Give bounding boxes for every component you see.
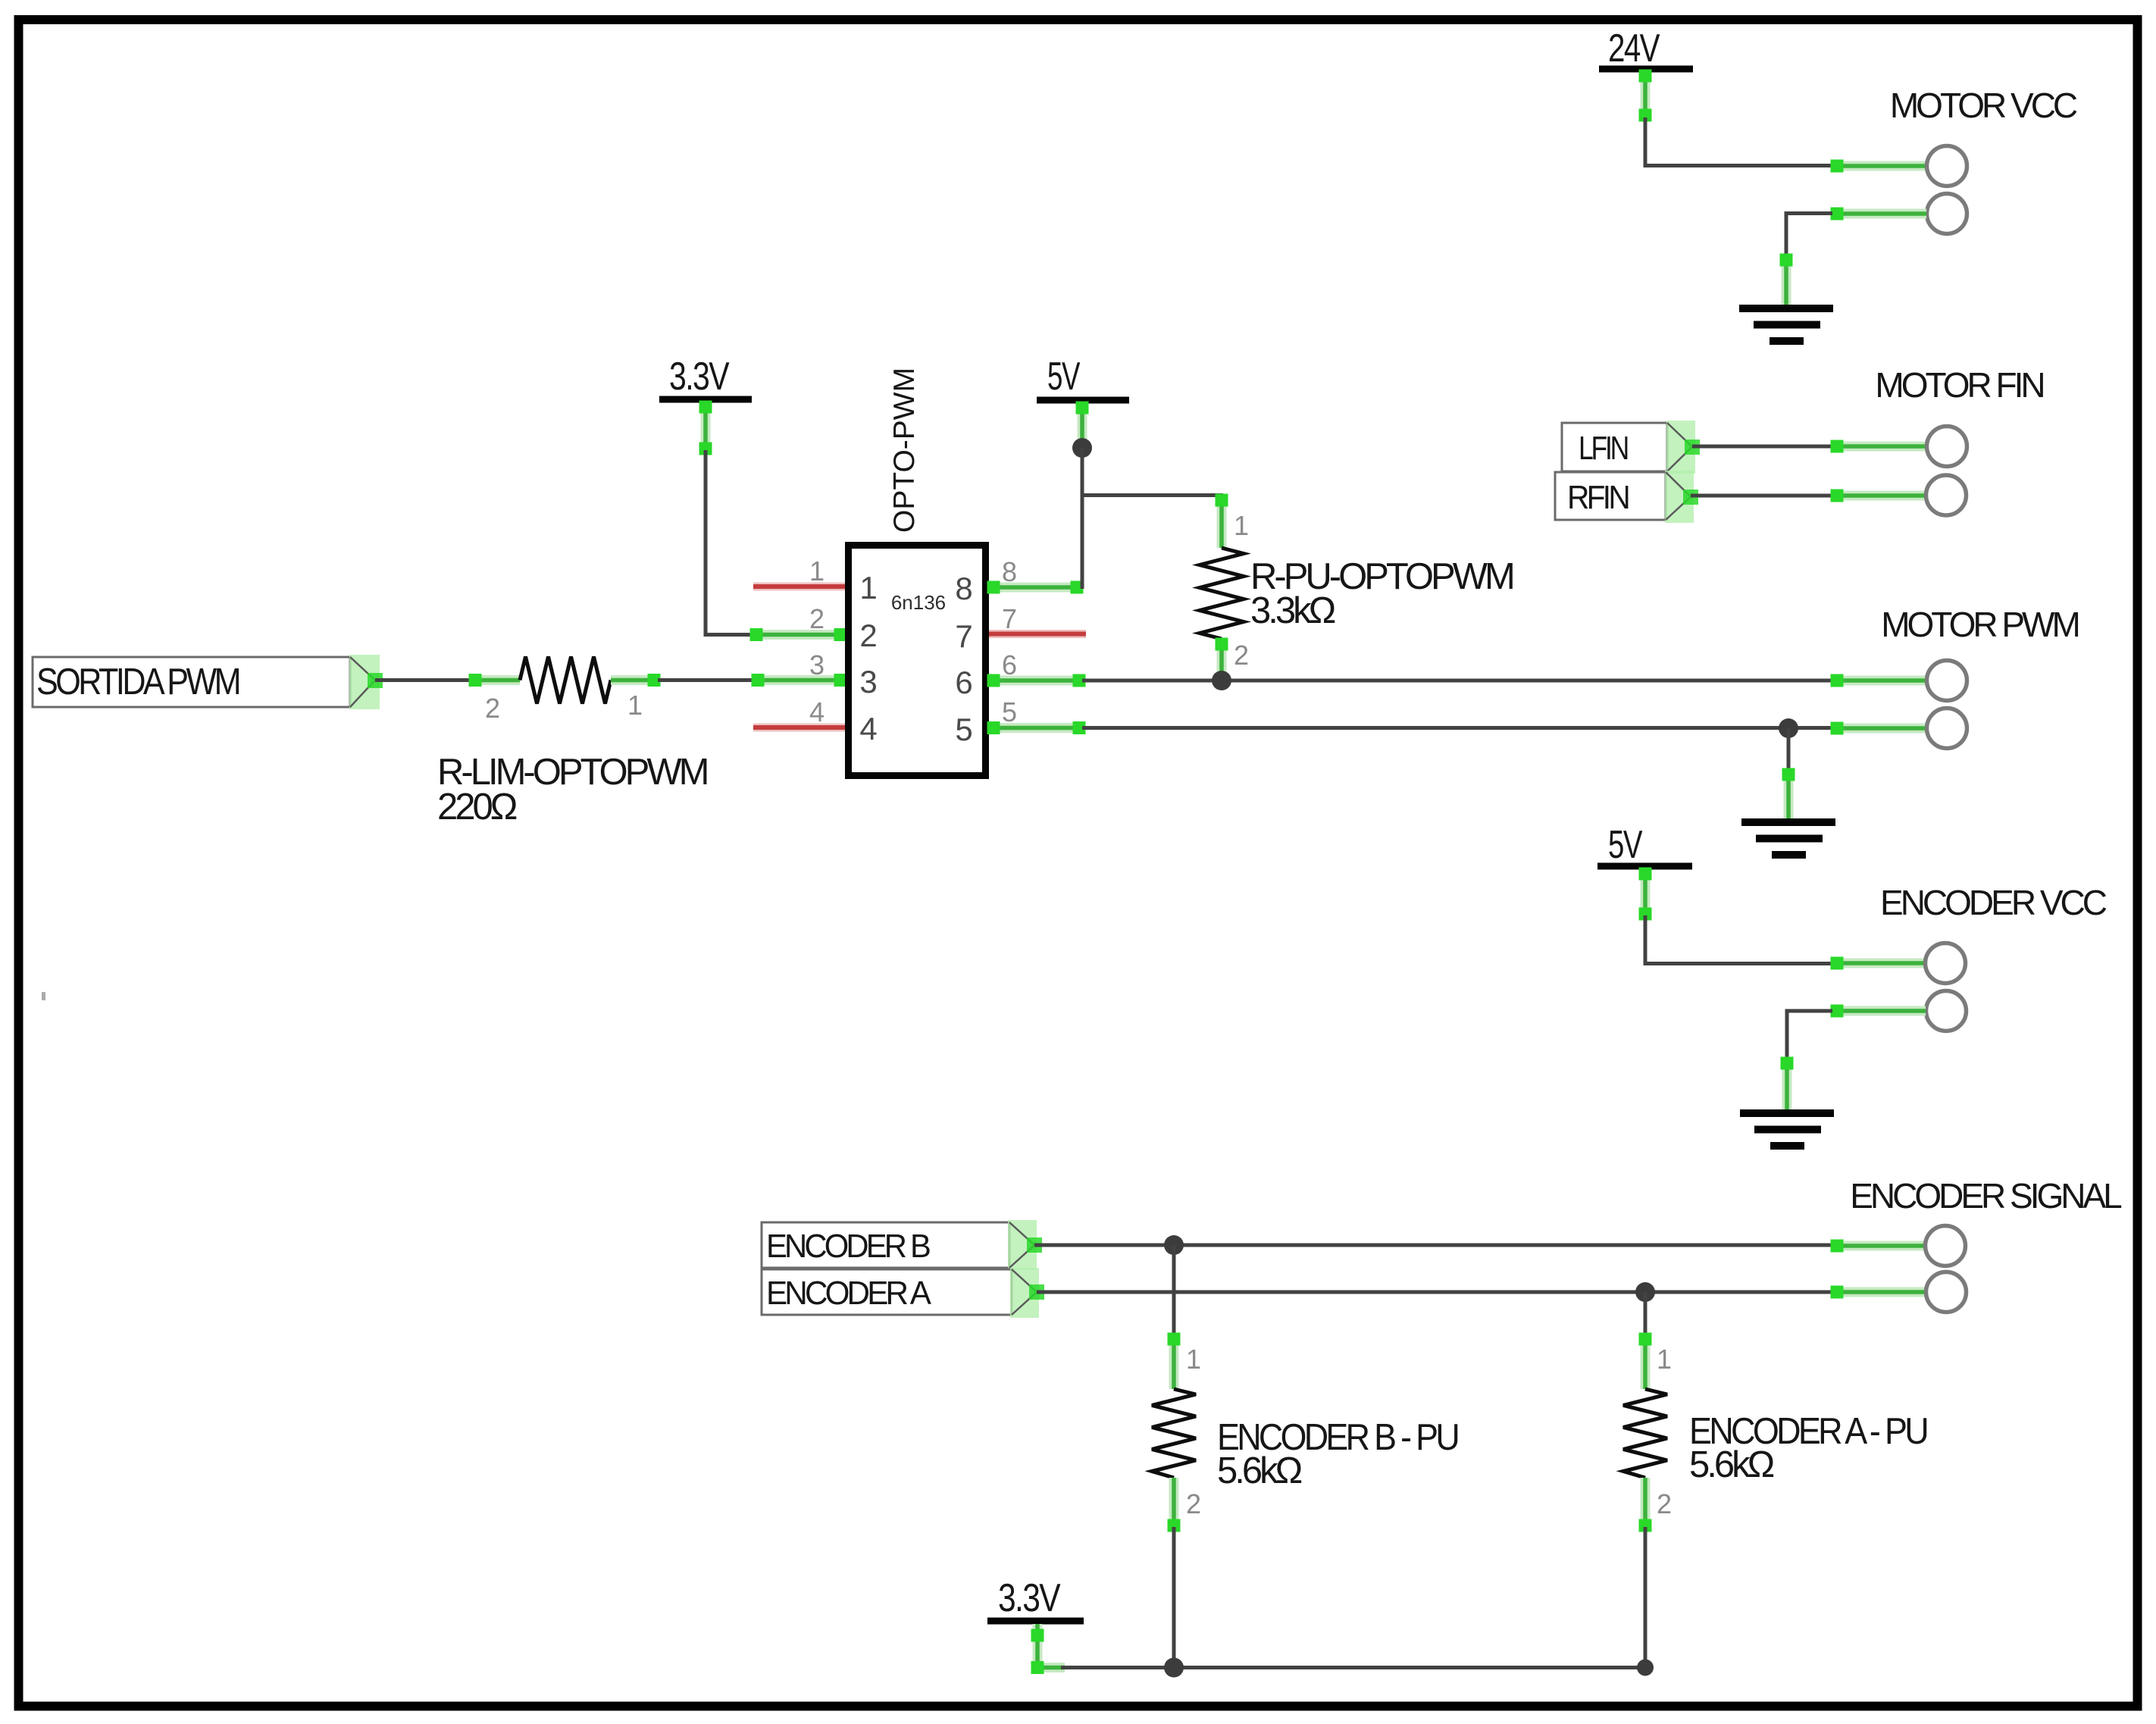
pin MOTOR PWM upper xyxy=(1927,661,1967,701)
wire 24V down green xyxy=(1639,70,1652,122)
wire green to pin xyxy=(1831,490,1926,502)
wire 3.3V elbow to pin2 xyxy=(706,450,753,635)
junction rail A xyxy=(1637,1660,1654,1676)
wire 3.3V rail xyxy=(1061,1666,1645,1669)
pin MOTOR PWM lower xyxy=(1927,709,1967,749)
svg-text:ENCODER VCC: ENCODER VCC xyxy=(1880,883,2107,922)
svg-text:LFIN: LFIN xyxy=(1579,430,1628,467)
junction rail B xyxy=(1164,1658,1184,1678)
pin ENCODER VCC - xyxy=(1926,991,1967,1031)
svg-text:6n136: 6n136 xyxy=(891,591,946,614)
ground xyxy=(1740,1113,1834,1146)
junction ENCODER B pullup tap xyxy=(1164,1235,1184,1255)
svg-text:8: 8 xyxy=(955,571,972,606)
wire ENCODER B down xyxy=(1172,1245,1176,1338)
svg-text:2: 2 xyxy=(809,603,825,634)
wire green to pin xyxy=(1831,1240,1926,1253)
wire elbow down to ground xyxy=(1786,214,1832,260)
svg-text:1: 1 xyxy=(1234,510,1249,541)
wire ENCODER A xyxy=(1037,1291,1832,1294)
svg-text:4: 4 xyxy=(859,711,877,746)
svg-text:1: 1 xyxy=(1657,1344,1672,1375)
svg-text:MOTOR FIN: MOTOR FIN xyxy=(1875,365,2043,405)
wire green to pin xyxy=(1831,440,1927,453)
pin ENCODER B xyxy=(1926,1226,1966,1266)
wire 5V down green xyxy=(1076,402,1089,444)
wire LFIN xyxy=(1692,445,1832,449)
pin RFIN xyxy=(1926,475,1967,515)
net label SORTIDA PWM xyxy=(33,655,383,709)
junction on 5V wire xyxy=(1072,438,1092,458)
optocoupler U1 OPTO-PWM 6n136 body xyxy=(849,546,986,776)
pin numbers inner left xyxy=(859,570,877,746)
svg-text:ENCODER A: ENCODER A xyxy=(766,1275,931,1312)
power symbol 24V xyxy=(1599,27,1693,70)
wire resistor to pin3 xyxy=(658,678,754,682)
svg-text:5.6kΩ: 5.6kΩ xyxy=(1217,1450,1302,1491)
pin numbers outer left xyxy=(809,555,825,727)
svg-text:2: 2 xyxy=(859,618,877,653)
wire ENCODER B xyxy=(1034,1244,1832,1247)
wire pin6 to MOTOR PWM xyxy=(1082,679,1832,683)
svg-text:3.3V: 3.3V xyxy=(998,1576,1061,1620)
pin numbers inner right xyxy=(955,571,972,747)
wire green to ground xyxy=(1781,1057,1794,1111)
svg-text:MOTOR VCC: MOTOR VCC xyxy=(1890,86,2077,125)
wire 24V elbow to MOTOR VCC pin xyxy=(1645,117,1832,166)
pin 8 green leg xyxy=(987,581,1084,594)
net label ENCODER A xyxy=(762,1268,1044,1318)
svg-text:2: 2 xyxy=(1657,1488,1672,1519)
pin ENCODER VCC + xyxy=(1926,943,1966,984)
pin numbers outer right xyxy=(1002,556,1017,727)
wire resistor A to rail xyxy=(1644,1527,1648,1668)
power symbol 5V top xyxy=(1037,355,1129,400)
svg-text:ENCODER B: ENCODER B xyxy=(766,1228,931,1265)
wire 3.3V down green xyxy=(699,401,712,455)
wire 5V vertical to pin8 xyxy=(1081,448,1084,589)
wire green pin3 leg xyxy=(752,674,847,687)
wire elbow down to ground xyxy=(1787,1011,1832,1061)
wire elbow to ENCODER VCC pin xyxy=(1645,915,1832,964)
wire resistor B to rail xyxy=(1172,1527,1176,1668)
wire 3.3V green to rail xyxy=(1031,1624,1065,1674)
wire SORTIDA to resistor xyxy=(375,678,471,682)
pin 4 red stub xyxy=(753,724,845,732)
pin ENCODER A xyxy=(1926,1272,1967,1313)
svg-text:RFIN: RFIN xyxy=(1567,479,1629,516)
wire green to ground xyxy=(1780,254,1793,306)
svg-text:7: 7 xyxy=(1002,603,1017,634)
svg-text:24V: 24V xyxy=(1608,27,1660,70)
junction R-PU bottom xyxy=(1212,671,1231,690)
wire green to ground xyxy=(1782,768,1795,820)
svg-text:6: 6 xyxy=(955,665,972,700)
svg-text:ENCODER SIGNAL: ENCODER SIGNAL xyxy=(1850,1176,2122,1216)
wire green to pin xyxy=(1831,1286,1927,1299)
power symbol 3.3V bottom xyxy=(987,1576,1084,1621)
wire branch to R-PU xyxy=(1082,493,1223,497)
svg-text:MOTOR PWM: MOTOR PWM xyxy=(1881,605,2078,644)
svg-text:5: 5 xyxy=(955,712,972,747)
svg-text:5: 5 xyxy=(1002,696,1017,727)
value label ENCODER B - PU 5.6k xyxy=(1217,1417,1458,1491)
wire ENCODER A down xyxy=(1644,1292,1648,1338)
wire down to ground xyxy=(1787,728,1791,773)
wire green to pin xyxy=(1831,674,1927,687)
power symbol 5V xyxy=(1597,823,1692,867)
resistor R-LIM-OPTOPWM 220 ohm xyxy=(469,657,661,704)
net label ENCODER B xyxy=(762,1220,1042,1270)
svg-text:1: 1 xyxy=(1186,1344,1201,1375)
svg-text:220Ω: 220Ω xyxy=(437,787,517,828)
svg-text:5V: 5V xyxy=(1608,823,1643,867)
svg-text:1: 1 xyxy=(859,570,877,605)
wire pin5 to MOTOR PWM lower xyxy=(1082,726,1832,730)
pin 7 red stub xyxy=(989,630,1086,638)
ground xyxy=(1741,822,1835,855)
svg-text:SORTIDA PWM: SORTIDA PWM xyxy=(36,662,239,702)
pin MOTOR VCC - xyxy=(1927,194,1967,234)
junction ground tap xyxy=(1779,718,1798,738)
svg-text:3: 3 xyxy=(809,649,825,681)
net label LFIN xyxy=(1562,421,1700,474)
wire 5V down green xyxy=(1639,868,1652,921)
wire green to pin xyxy=(1831,160,1927,173)
svg-text:1: 1 xyxy=(627,690,643,721)
svg-text:2: 2 xyxy=(1186,1488,1201,1519)
svg-text:5V: 5V xyxy=(1047,355,1081,399)
value label R-LIM-OPTOPWM 220 xyxy=(437,752,707,828)
svg-text:4: 4 xyxy=(809,696,825,727)
svg-text:7: 7 xyxy=(955,618,972,654)
pin LFIN xyxy=(1927,427,1967,467)
value label ENCODER A - PU 5.6k xyxy=(1689,1411,1927,1485)
resistor ENCODER A - PU 5.6k xyxy=(1623,1333,1667,1532)
stray mark xyxy=(42,992,45,1000)
svg-text:3: 3 xyxy=(859,664,877,699)
wire green to pin xyxy=(1831,957,1926,970)
wire green from pin xyxy=(1831,208,1927,221)
svg-text:1: 1 xyxy=(809,555,825,587)
svg-text:2: 2 xyxy=(485,693,500,724)
resistor ENCODER B - PU 5.6k xyxy=(1152,1333,1196,1532)
wire green pin2 leg xyxy=(750,628,847,641)
wire green to pin xyxy=(1831,722,1927,735)
resistor R-PU-OPTOPWM 3.3k xyxy=(1200,494,1244,681)
pin 6 green leg xyxy=(987,674,1086,687)
svg-text:3.3V: 3.3V xyxy=(669,355,730,399)
pin 5 green leg xyxy=(987,721,1086,734)
svg-text:2: 2 xyxy=(1234,640,1249,671)
svg-text:OPTO-PWM: OPTO-PWM xyxy=(888,368,921,533)
wire RFIN xyxy=(1691,494,1832,498)
svg-text:5.6kΩ: 5.6kΩ xyxy=(1689,1444,1774,1485)
svg-text:3.3kΩ: 3.3kΩ xyxy=(1250,590,1335,631)
net label RFIN xyxy=(1555,471,1698,523)
wire green from pin xyxy=(1831,1005,1926,1018)
power symbol 3.3V xyxy=(659,355,752,399)
pin MOTOR VCC + xyxy=(1927,146,1967,186)
value label R-PU-OPTOPWM 3.3k xyxy=(1250,556,1513,631)
pin 1 red stub xyxy=(753,583,845,591)
junction ENCODER A pullup tap xyxy=(1635,1282,1655,1302)
ground xyxy=(1739,308,1833,341)
